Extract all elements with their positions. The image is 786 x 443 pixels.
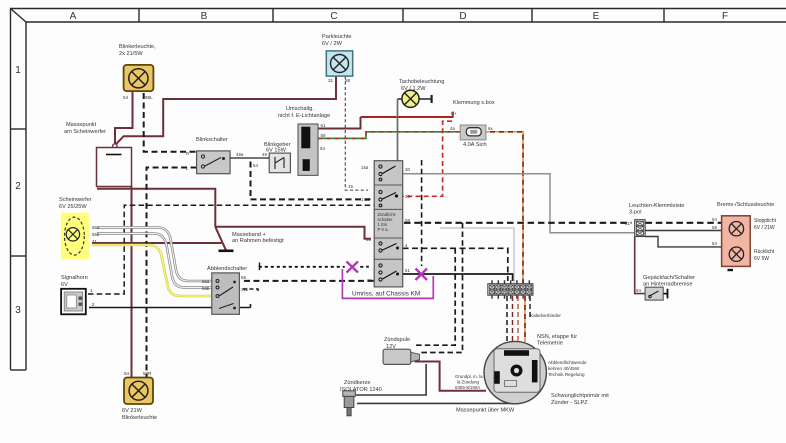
terminator bar at brake switch xyxy=(663,289,667,299)
svg-text:54: 54 xyxy=(320,146,325,151)
svg-text:P 0 a.: P 0 a. xyxy=(378,227,389,232)
svg-text:A: A xyxy=(70,11,77,22)
wire: yellow wire headlight to dimmer xyxy=(92,245,212,296)
svg-text:3-pol: 3-pol xyxy=(629,210,641,216)
svg-text:R: R xyxy=(186,151,189,156)
wire: headlight high beam white pair xyxy=(97,228,212,282)
svg-text:54: 54 xyxy=(636,288,641,293)
wire: tacho lamp lead and terminator xyxy=(398,98,432,100)
svg-text:NSN, etappe für: NSN, etappe für xyxy=(537,334,577,340)
wire: main light dashed bus to terminal strip xyxy=(404,222,632,224)
svg-text:31: 31 xyxy=(625,221,630,226)
svg-text:Umschaltg.: Umschaltg. xyxy=(286,106,314,112)
wire: ground bus to ignition switch pin 31 (maroon) xyxy=(215,227,371,239)
svg-text:51: 51 xyxy=(405,268,410,273)
wire: blinker 58L dashed to turn switch xyxy=(144,93,197,152)
svg-text:Blinkerleuchte: Blinkerleuchte xyxy=(122,415,157,421)
svg-text:Zündkerze: Zündkerze xyxy=(344,380,370,386)
svg-text:6V 5W: 6V 5W xyxy=(754,256,769,262)
svg-text:58: 58 xyxy=(345,78,351,83)
svg-text:59: 59 xyxy=(321,133,326,138)
svg-text:6V / 2W: 6V / 2W xyxy=(322,41,343,47)
svg-text:6V 21W: 6V 21W xyxy=(122,408,143,414)
svg-text:an Hinterradbremse: an Hinterradbremse xyxy=(643,282,692,288)
wire: front blinker 54 to ground junction (maroon) xyxy=(115,92,133,144)
svg-text:Klemmung s.box: Klemmung s.box xyxy=(453,100,495,106)
connector X left (magenta) xyxy=(347,262,359,273)
svg-text:la Zündung: la Zündung xyxy=(457,380,480,385)
svg-text:X: X xyxy=(366,264,369,269)
wire: connector + to B+ junction (maroon) xyxy=(318,117,361,129)
wire: charge wire drop to X connector xyxy=(421,160,423,266)
svg-text:58L: 58L xyxy=(145,95,153,100)
svg-text:am Scheinwerfer: am Scheinwerfer xyxy=(64,129,106,135)
svg-text:1: 1 xyxy=(15,65,21,76)
wire: ignition sw 51 to cable connector (black) xyxy=(403,274,513,281)
svg-text:56b: 56b xyxy=(202,286,210,291)
svg-text:54: 54 xyxy=(123,95,129,100)
svg-text:12V: 12V xyxy=(386,344,396,350)
svg-text:Brems-/Schlussleuchte: Brems-/Schlussleuchte xyxy=(717,202,774,208)
svg-text:D: D xyxy=(459,11,466,22)
svg-text:31b: 31b xyxy=(241,287,249,292)
wire: dimmer stub 31b xyxy=(243,289,258,294)
svg-text:4a: 4a xyxy=(450,126,455,131)
svg-text:Abblendlichtwende: Abblendlichtwende xyxy=(548,360,587,365)
wire: diagonal to frame ground symbol (maroon) xyxy=(215,227,226,251)
svg-text:Umriss, auf Chassis KM: Umriss, auf Chassis KM xyxy=(352,291,420,298)
lamp: park light 6V/2W xyxy=(326,51,352,76)
svg-text:31: 31 xyxy=(92,239,97,244)
svg-text:54: 54 xyxy=(253,163,258,168)
svg-text:31: 31 xyxy=(366,237,371,242)
wire: white wire to cable connector xyxy=(440,228,514,283)
magneto base plate (alternator) xyxy=(484,341,546,403)
wire: spark plug HT to coil xyxy=(356,364,426,395)
svg-text:Grundpl. m. la: Grundpl. m. la xyxy=(455,374,483,379)
switch: dimmer/horn switch xyxy=(212,273,240,314)
lamp: rear blinker xyxy=(124,378,153,405)
svg-text:Gepäckfach/Schalter: Gepäckfach/Schalter xyxy=(643,275,695,281)
svg-text:30: 30 xyxy=(405,194,410,199)
svg-text:F: F xyxy=(722,11,728,22)
svg-text:4.0A Sich: 4.0A Sich xyxy=(463,142,487,148)
svg-text:Telemetrie: Telemetrie xyxy=(537,341,563,347)
wire: horn to dimmer switch (black) xyxy=(89,304,251,308)
svg-text:1.15: 1.15 xyxy=(361,197,370,202)
svg-text:6V / 1.2W: 6V / 1.2W xyxy=(401,86,426,92)
svg-text:Parkleuchte: Parkleuchte xyxy=(322,34,352,40)
svg-text:31: 31 xyxy=(328,78,334,83)
svg-text:2x 21/5W: 2x 21/5W xyxy=(119,51,143,57)
wires: strip to tail lamp unit xyxy=(645,231,722,247)
wire: park lamp 58 drop to switch (thin dashed gray) xyxy=(345,76,368,190)
sec4 contacts xyxy=(379,242,382,245)
wire: dimmer to switch pin 30 dashed xyxy=(244,280,374,282)
svg-text:54: 54 xyxy=(712,241,717,246)
spark plug xyxy=(343,391,356,416)
svg-text:Technik Regelung: Technik Regelung xyxy=(548,372,585,377)
wire: headlight pin31 ground (maroon) xyxy=(92,242,222,244)
wire: dashed pair down to ignition coil xyxy=(414,248,455,345)
svg-text:Tachobeleuchtung: Tachobeleuchtung xyxy=(399,79,444,85)
node: ground junction dot xyxy=(113,144,117,148)
horn 6V xyxy=(61,289,86,315)
svg-text:6V 25/25W: 6V 25/25W xyxy=(59,204,87,210)
label: magneto right xyxy=(548,360,587,377)
lamp: front blinker 2x21W xyxy=(124,65,154,91)
svg-text:B: B xyxy=(201,11,208,22)
svg-text:15a: 15a xyxy=(361,165,369,170)
wire: ground box bottom to frame ground run (maroon) xyxy=(97,189,215,227)
svg-text:30: 30 xyxy=(367,278,372,283)
svg-text:49a: 49a xyxy=(236,152,244,157)
connector: lights terminal strip 3-pol xyxy=(635,220,645,237)
svg-text:56a: 56a xyxy=(92,225,100,230)
svg-text:56b: 56b xyxy=(92,232,100,237)
wire: flasher unit feed dashed xyxy=(251,162,375,200)
svg-text:nicht f. E-Lichtanlage: nicht f. E-Lichtanlage xyxy=(278,113,330,119)
wire: horn feed dashed up and across to switch xyxy=(88,205,374,294)
svg-text:6305-8/190A: 6305-8/190A xyxy=(455,385,480,390)
ruler letters xyxy=(15,11,728,316)
wire: plug ground to alternator bottom xyxy=(357,402,517,405)
wire: taillight feed gray from switch xyxy=(403,174,634,233)
svg-text:Leuchten-Klemmleiste: Leuchten-Klemmleiste xyxy=(629,203,684,209)
svg-text:ISOLATOR 1240: ISOLATOR 1240 xyxy=(340,387,382,393)
svg-text:56a: 56a xyxy=(202,279,210,284)
svg-text:6V: 6V xyxy=(61,282,68,288)
lamp: tacho illumination xyxy=(402,90,419,107)
svg-text:6x: 6x xyxy=(488,126,493,131)
svg-text:E: E xyxy=(593,11,600,22)
wire: dotted parking feed to X xyxy=(260,266,369,268)
relay: flasher unit xyxy=(269,153,290,173)
svg-text:Blinkschalter: Blinkschalter xyxy=(196,137,228,143)
svg-text:58: 58 xyxy=(712,225,717,230)
switch: turn signal switch xyxy=(197,151,231,174)
fuse 4A xyxy=(460,125,486,140)
wire: coil ground to alternator (maroon) xyxy=(415,362,487,391)
LABELS-LAYER xyxy=(59,34,777,421)
sec2 contacts xyxy=(379,190,382,193)
svg-text:kehren 40/45W: kehren 40/45W xyxy=(548,366,580,371)
svg-text:58: 58 xyxy=(405,218,410,223)
svg-text:58R: 58R xyxy=(143,371,152,376)
WIRES-LAYER xyxy=(88,76,722,404)
connector: cable connector block xyxy=(488,280,533,299)
switch: ignition light switch block xyxy=(374,161,403,287)
svg-text:Rücklicht: Rücklicht xyxy=(754,249,775,255)
connector X right (magenta) xyxy=(416,269,428,281)
svg-text:Abblendschalter: Abblendschalter xyxy=(207,266,247,272)
svg-text:Kabelverbinder: Kabelverbinder xyxy=(530,313,561,318)
svg-text:an Rahmen befestigt: an Rahmen befestigt xyxy=(232,238,284,244)
sec5 contacts xyxy=(379,264,382,267)
headlight 6V 25/25W xyxy=(61,213,89,260)
chassis outline (magenta) xyxy=(342,269,433,298)
svg-text:Scheinwerfer: Scheinwerfer xyxy=(59,197,92,203)
label: magneto left xyxy=(455,374,483,390)
svg-text:Stopplicht: Stopplicht xyxy=(754,218,777,224)
svg-text:61: 61 xyxy=(321,123,326,128)
ground symbol front frame xyxy=(219,250,234,253)
svg-text:56: 56 xyxy=(241,275,246,280)
wire: turn switch to flasher xyxy=(230,157,269,159)
svg-text:2: 2 xyxy=(15,181,21,192)
svg-text:6V 15W: 6V 15W xyxy=(266,148,287,154)
sec1 contacts xyxy=(379,165,382,168)
wire: green/red charging wire connector to fuse xyxy=(318,132,466,139)
ignition coil 12V xyxy=(383,349,419,364)
svg-text:54: 54 xyxy=(124,371,130,376)
wire: B+ solid red feed xyxy=(361,116,454,118)
svg-text:Zündspule: Zündspule xyxy=(384,337,410,343)
svg-text:Massepunkt über MKW: Massepunkt über MKW xyxy=(456,408,515,414)
svg-text:30: 30 xyxy=(405,167,410,172)
svg-text:6V / 21W: 6V / 21W xyxy=(754,225,775,231)
svg-text:54: 54 xyxy=(712,217,717,222)
wire: turn switch to rear blinker 58R dashed xyxy=(147,168,197,378)
svg-text:Signalhorn: Signalhorn xyxy=(61,275,88,281)
wire: terminal strip to stop light dashed xyxy=(646,222,722,224)
wire: connector to magneto dashed drops xyxy=(506,296,508,342)
wire: lamp terminal strip to brake switch (maroon) xyxy=(635,237,646,294)
svg-text:Blinkerleuchte,: Blinkerleuchte, xyxy=(119,44,156,50)
wire: ignition sw to cable connector dashed xyxy=(403,248,508,281)
wire: tacho drop to switch contact xyxy=(397,99,399,170)
wire: park lamp feed (maroon) blue lamp pin to ground junction xyxy=(115,76,336,145)
wire: fuse to alternator feed (orange/brown dashed) down page xyxy=(481,132,523,283)
tail/stop lamp unit xyxy=(722,216,751,270)
svg-text:B+: B+ xyxy=(451,111,457,116)
wire: red dashed battery feed down to switch pin 30 xyxy=(404,121,453,196)
svg-text:Schwunglichtprimär mit: Schwunglichtprimär mit xyxy=(551,393,609,399)
svg-text:Massepunkt: Massepunkt xyxy=(66,122,97,128)
label: ignition switch text xyxy=(378,212,397,232)
wire: headlight low beam white pair xyxy=(97,234,212,288)
ground point box at headlamp xyxy=(97,148,132,187)
connector: lighting coil connector xyxy=(298,124,318,175)
switch: rear brake light switch xyxy=(645,287,663,300)
svg-text:15: 15 xyxy=(348,184,353,189)
wire: long maroon vertical to rear blinker xyxy=(131,187,133,378)
svg-text:3: 3 xyxy=(15,305,21,316)
svg-text:Zünder - SLPZ: Zünder - SLPZ xyxy=(551,400,588,406)
svg-text:C: C xyxy=(330,11,337,22)
